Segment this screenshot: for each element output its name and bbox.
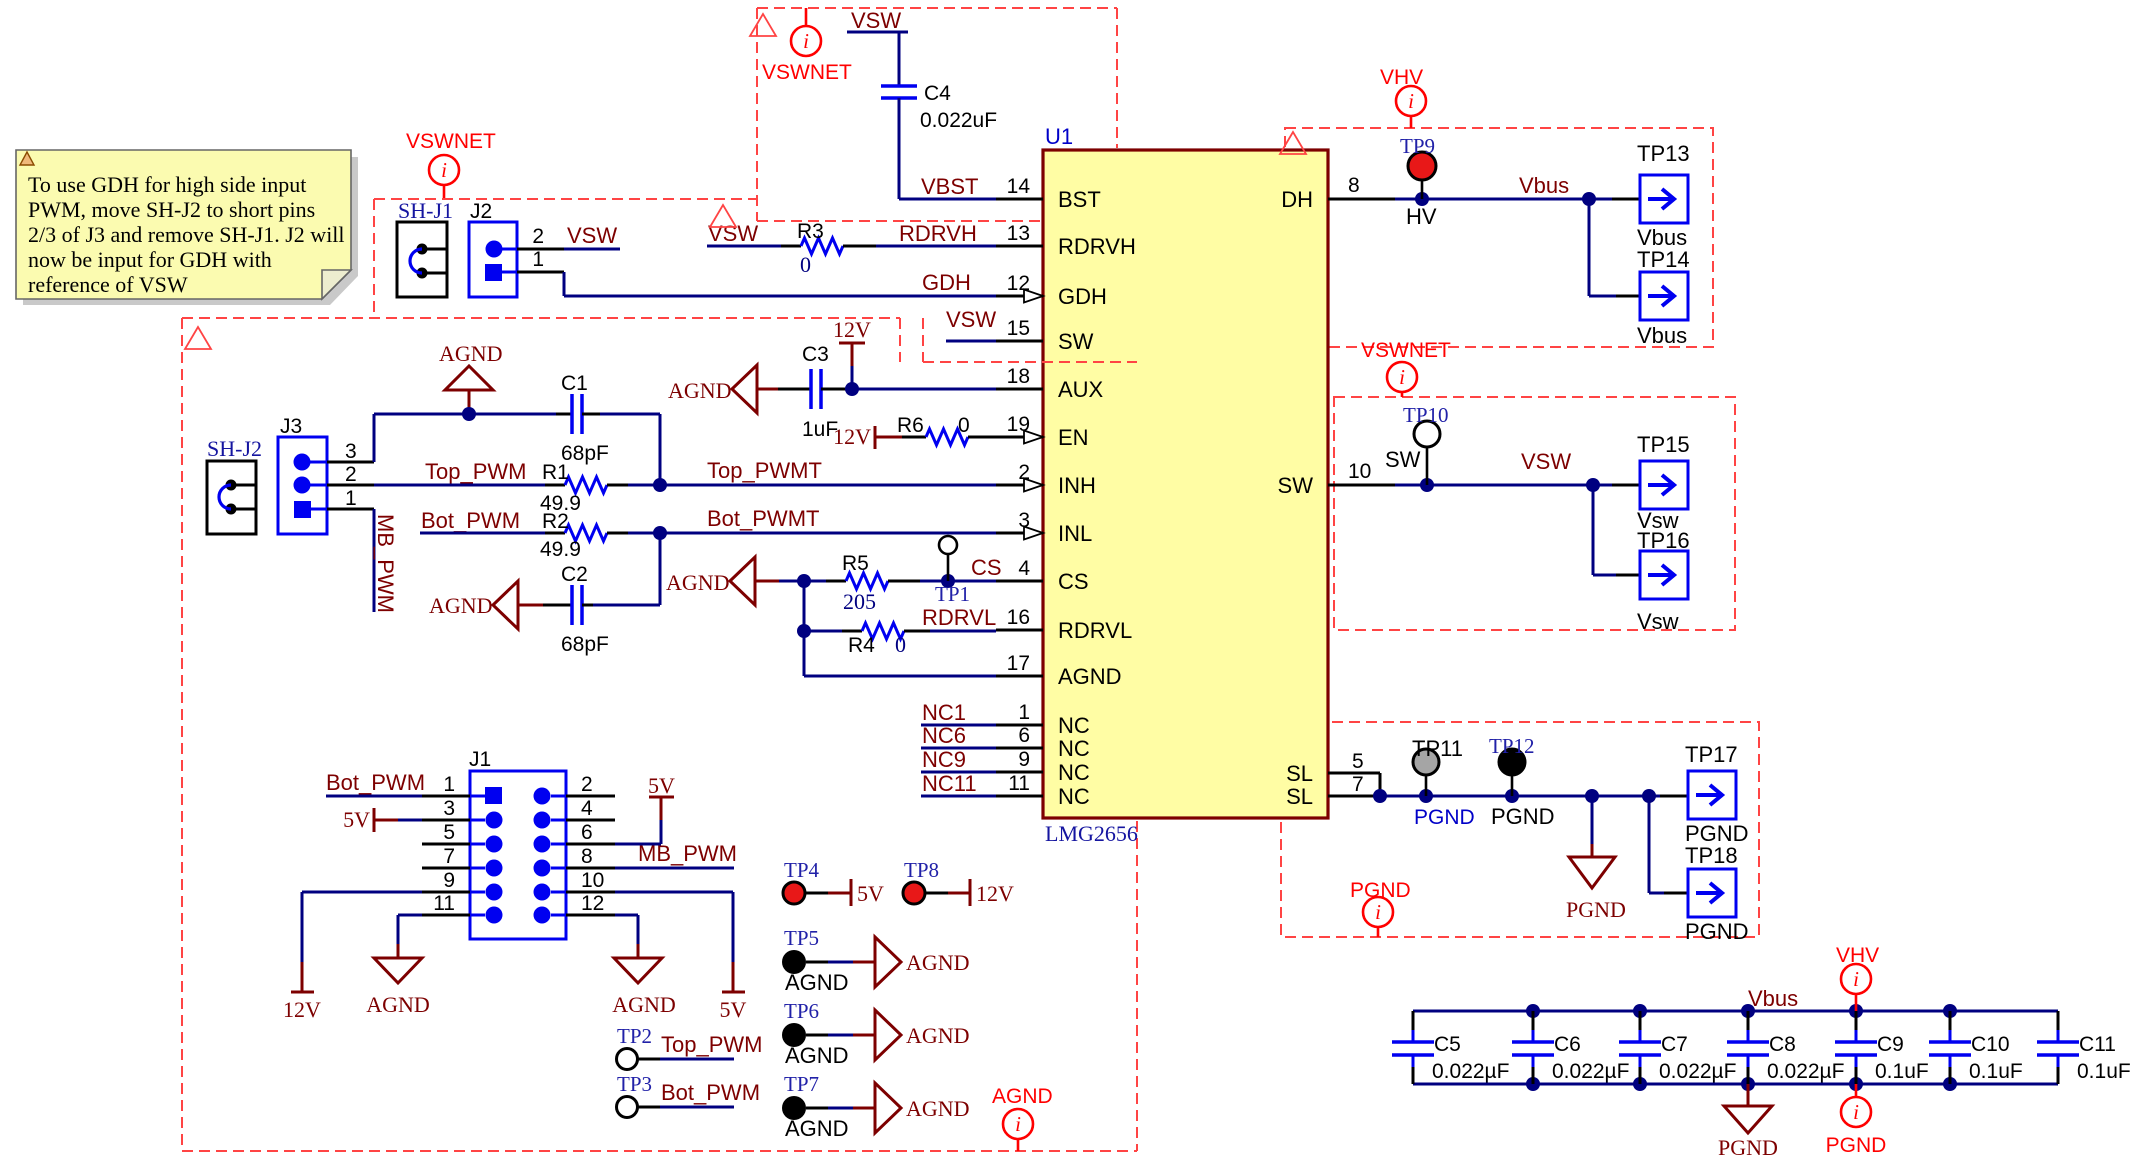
svg-text:R4: R4 xyxy=(848,634,875,657)
svg-text:J2: J2 xyxy=(470,200,492,223)
svg-text:J1: J1 xyxy=(469,748,491,771)
resistor R6 xyxy=(897,414,996,445)
svg-text:2/3 of J3 and remove SH-J1. J2: 2/3 of J3 and remove SH-J1. J2 will xyxy=(28,222,345,247)
svg-text:R6: R6 xyxy=(897,414,924,437)
test point TP11 xyxy=(1412,736,1475,829)
svg-text:C11: C11 xyxy=(2079,1033,2116,1056)
svg-text:0.022µF: 0.022µF xyxy=(1659,1060,1736,1083)
node VSW at R3 xyxy=(707,221,781,246)
wire J1 pin4 xyxy=(566,819,615,822)
svg-text:0: 0 xyxy=(958,414,970,437)
svg-text:VSW: VSW xyxy=(851,8,901,33)
svg-text:EN: EN xyxy=(1058,425,1089,450)
wire R2 to INL xyxy=(628,526,996,540)
svg-text:AGND: AGND xyxy=(906,1096,970,1121)
variant marker triangle big left box xyxy=(185,327,211,349)
variant region box top VSWNET xyxy=(757,8,1117,221)
svg-text:68pF: 68pF xyxy=(561,633,609,656)
variant region box Vbus TP9 TP13 TP14 xyxy=(1285,128,1713,347)
note yellow sticky xyxy=(16,150,358,305)
variant region edge over U1 xyxy=(923,361,1137,363)
test point TP1 xyxy=(935,536,970,606)
svg-text:4: 4 xyxy=(1018,557,1030,580)
svg-text:i: i xyxy=(1408,89,1414,113)
svg-text:i: i xyxy=(1853,1100,1859,1124)
svg-text:4: 4 xyxy=(581,797,593,820)
resistor R1 xyxy=(540,461,628,515)
svg-text:5V: 5V xyxy=(720,997,747,1022)
svg-text:Bot_PWM: Bot_PWM xyxy=(326,770,425,795)
port AGND at TP5 xyxy=(875,937,970,987)
net class VSWNET top xyxy=(762,8,852,84)
test point TP16 xyxy=(1637,528,1690,634)
svg-text:5V: 5V xyxy=(343,807,370,832)
svg-text:VSW: VSW xyxy=(567,223,617,248)
net class VSWNET right xyxy=(1361,339,1451,397)
capacitor C3 xyxy=(802,343,838,441)
resistor R5 xyxy=(826,552,920,614)
svg-text:16: 16 xyxy=(1007,606,1030,629)
svg-text:PGND: PGND xyxy=(1566,897,1626,922)
wire J1 pin12 to AGND xyxy=(566,915,638,944)
svg-text:Vbus: Vbus xyxy=(1748,986,1798,1011)
power 12V at J1 pin9 xyxy=(283,962,321,1022)
svg-text:R3: R3 xyxy=(797,220,824,243)
svg-text:BST: BST xyxy=(1058,187,1101,212)
node NC11 xyxy=(921,771,996,796)
svg-text:17: 17 xyxy=(1007,652,1030,675)
port AGND at TP7 xyxy=(875,1083,970,1133)
wire J1 pin11 to AGND xyxy=(398,915,470,944)
test point TP9 xyxy=(1400,134,1436,199)
wire R1 to INH xyxy=(628,478,996,492)
net class PGND at bank xyxy=(1826,1084,1887,1157)
svg-text:PWM, move SH-J2 to short pins: PWM, move SH-J2 to short pins xyxy=(28,197,315,222)
node VSW top xyxy=(847,8,908,33)
svg-text:VHV: VHV xyxy=(1380,66,1423,89)
svg-text:12V: 12V xyxy=(833,317,871,342)
svg-text:i: i xyxy=(1015,1112,1021,1136)
svg-text:2: 2 xyxy=(581,773,593,796)
wire J3 pin1 MB_PWM xyxy=(327,509,374,612)
svg-text:11: 11 xyxy=(1008,772,1030,795)
wire AGND port to R5 xyxy=(779,574,826,588)
wire to TP14 xyxy=(1589,199,1640,296)
wire gnd rail down to R4 xyxy=(797,581,842,638)
svg-text:i: i xyxy=(1399,365,1405,389)
svg-text:PGND: PGND xyxy=(1826,1134,1887,1157)
svg-text:15: 15 xyxy=(1007,317,1030,340)
svg-text:R2: R2 xyxy=(542,510,569,533)
svg-text:1: 1 xyxy=(532,248,544,271)
wire SW to VSW xyxy=(1395,478,1640,492)
svg-text:0.022uF: 0.022uF xyxy=(920,109,997,132)
net class VSWNET left xyxy=(406,130,496,198)
wire J1 pin10 to 5V xyxy=(566,892,733,962)
svg-text:SL: SL xyxy=(1286,761,1313,786)
U1 pin 11 NC xyxy=(996,772,1090,809)
svg-text:i: i xyxy=(803,29,809,53)
svg-text:AGND: AGND xyxy=(666,570,730,595)
jumper shunt SH-J1 xyxy=(397,198,453,297)
svg-text:TP13: TP13 xyxy=(1637,141,1690,166)
U1 pin 3 INL xyxy=(996,509,1092,546)
test point TP10 xyxy=(1403,403,1449,485)
wire J1 pin2 xyxy=(566,795,615,798)
wire DH to Vbus xyxy=(1395,192,1640,206)
svg-text:SW: SW xyxy=(1385,447,1421,472)
svg-text:12V: 12V xyxy=(283,997,321,1022)
port AGND at C3 xyxy=(668,365,778,413)
svg-text:CS: CS xyxy=(971,555,1002,580)
svg-text:INH: INH xyxy=(1058,473,1096,498)
svg-text:AUX: AUX xyxy=(1058,377,1104,402)
svg-text:INL: INL xyxy=(1058,521,1092,546)
wire VSW to C4 xyxy=(898,32,901,86)
svg-text:12V: 12V xyxy=(976,881,1014,906)
svg-text:Bot_PWM: Bot_PWM xyxy=(661,1080,760,1105)
svg-text:1: 1 xyxy=(1018,701,1030,724)
svg-text:Top_PWM: Top_PWM xyxy=(661,1032,762,1057)
U1 pin 6 NC xyxy=(996,724,1090,761)
wire C1 to INH rail xyxy=(600,414,660,485)
svg-text:AGND: AGND xyxy=(785,1043,849,1068)
variant region big left box AGND xyxy=(182,318,1137,1151)
wire C4 to BST xyxy=(899,98,996,199)
svg-text:5: 5 xyxy=(443,821,455,844)
svg-text:VSWNET: VSWNET xyxy=(406,130,496,153)
svg-text:AGND: AGND xyxy=(906,1023,970,1048)
test point TP12 xyxy=(1489,734,1555,829)
svg-text:VBST: VBST xyxy=(921,174,978,199)
svg-text:C10: C10 xyxy=(1971,1033,2010,1056)
svg-text:TP5: TP5 xyxy=(784,926,819,950)
svg-text:GDH: GDH xyxy=(922,270,971,295)
U1 pin 12 GDH xyxy=(996,272,1107,309)
U1 pin 4 CS xyxy=(996,557,1089,594)
U1 pin 14 BST xyxy=(996,175,1101,212)
wire Vbus top rail xyxy=(1413,1004,2058,1018)
svg-text:18: 18 xyxy=(1007,365,1030,388)
capacitor C7 xyxy=(1619,1011,1736,1084)
U1 pin 7 SL xyxy=(1286,773,1380,809)
svg-text:AGND: AGND xyxy=(429,593,493,618)
U1 pin 5 SL xyxy=(1286,750,1380,786)
svg-text:NC: NC xyxy=(1058,713,1090,738)
U1 pin 15 SW xyxy=(996,317,1094,354)
svg-text:Bot_PWM: Bot_PWM xyxy=(421,508,520,533)
wire AGND port to C3 xyxy=(778,388,811,391)
resistor R3 xyxy=(781,220,876,277)
svg-text:14: 14 xyxy=(1007,175,1031,198)
svg-text:0.1uF: 0.1uF xyxy=(1969,1060,2023,1083)
net class VHV top xyxy=(1380,66,1426,128)
svg-text:3: 3 xyxy=(345,440,357,463)
svg-text:TP7: TP7 xyxy=(784,1072,819,1096)
port AGND at R5 R4 xyxy=(666,557,779,605)
power 5V at J1 pin6 xyxy=(648,773,675,820)
ground AGND power symbol at C1 xyxy=(439,341,503,421)
svg-text:5V: 5V xyxy=(857,881,884,906)
svg-text:1: 1 xyxy=(345,487,357,510)
test point TP13 xyxy=(1637,141,1690,250)
svg-text:MB_PWM: MB_PWM xyxy=(638,841,737,866)
wire R5 to CS xyxy=(920,574,996,588)
svg-text:2: 2 xyxy=(345,463,357,486)
variant marker triangle Vbus box xyxy=(1280,132,1306,154)
wire J2 pin1 to GDH xyxy=(517,272,996,296)
svg-text:C5: C5 xyxy=(1434,1033,1461,1056)
svg-text:NC11: NC11 xyxy=(922,771,977,796)
wire Bot_PWM xyxy=(420,532,545,535)
U1 pin 18 AUX xyxy=(996,365,1104,402)
svg-text:6: 6 xyxy=(581,821,593,844)
svg-text:PGND: PGND xyxy=(1414,806,1475,829)
wire gnd rail to AGND pin xyxy=(804,631,996,676)
svg-text:TP12: TP12 xyxy=(1489,734,1535,758)
svg-text:i: i xyxy=(441,158,447,182)
svg-text:SW: SW xyxy=(1278,473,1314,498)
variant marker triangle top box xyxy=(750,14,776,36)
test point TP7 xyxy=(782,1072,875,1141)
svg-text:10: 10 xyxy=(1348,460,1371,483)
svg-text:VSWNET: VSWNET xyxy=(762,61,852,84)
capacitor C4 xyxy=(881,82,997,132)
net class AGND bottom xyxy=(992,1085,1053,1151)
svg-text:DH: DH xyxy=(1281,187,1313,212)
svg-text:C2: C2 xyxy=(561,563,588,586)
wire to TP18 xyxy=(1649,796,1688,893)
svg-text:TP9: TP9 xyxy=(1400,134,1435,158)
svg-text:TP1: TP1 xyxy=(935,582,970,606)
svg-text:C4: C4 xyxy=(924,82,951,105)
svg-text:SH-J1: SH-J1 xyxy=(398,198,453,223)
svg-text:Top_PWMT: Top_PWMT xyxy=(707,458,822,483)
svg-text:10: 10 xyxy=(581,869,604,892)
wire J1 pin5 xyxy=(422,843,470,846)
ground AGND at J1 pin11 xyxy=(366,944,430,1017)
svg-text:TP11: TP11 xyxy=(1412,736,1463,761)
connector J1 xyxy=(433,748,604,939)
svg-text:11: 11 xyxy=(433,892,455,915)
U1 pin 1 NC xyxy=(996,701,1090,738)
svg-text:49.9: 49.9 xyxy=(540,538,581,561)
ground PGND triangle at bank xyxy=(1718,1084,1778,1160)
svg-text:0.022µF: 0.022µF xyxy=(1552,1060,1629,1083)
svg-text:AGND: AGND xyxy=(1058,664,1122,689)
wire J1 pin8 MB_PWM xyxy=(566,841,737,868)
svg-text:C9: C9 xyxy=(1877,1033,1904,1056)
svg-text:NC9: NC9 xyxy=(922,747,966,772)
test point TP4 xyxy=(783,858,884,906)
svg-text:HV: HV xyxy=(1406,204,1437,229)
svg-text:R1: R1 xyxy=(542,461,569,484)
svg-text:Vbus: Vbus xyxy=(1637,323,1687,348)
ground PGND port triangle at SL xyxy=(1566,796,1626,922)
svg-text:C8: C8 xyxy=(1769,1033,1796,1056)
svg-text:AGND: AGND xyxy=(906,950,970,975)
svg-text:VSW: VSW xyxy=(946,307,996,332)
wire SL pins join xyxy=(1373,773,1688,803)
svg-text:TP4: TP4 xyxy=(784,858,820,882)
svg-text:5V: 5V xyxy=(648,773,675,798)
svg-text:AGND: AGND xyxy=(785,1116,849,1141)
svg-text:C1: C1 xyxy=(561,372,588,395)
svg-text:SL: SL xyxy=(1286,784,1313,809)
svg-text:RDRVL: RDRVL xyxy=(922,605,996,630)
svg-text:Bot_PWMT: Bot_PWMT xyxy=(707,506,819,531)
svg-text:Vsw: Vsw xyxy=(1637,609,1679,634)
svg-text:13: 13 xyxy=(1007,222,1030,245)
svg-text:Top_PWM: Top_PWM xyxy=(425,459,526,484)
capacitor C6 xyxy=(1512,1011,1629,1084)
svg-text:12: 12 xyxy=(581,892,604,915)
test point TP3 xyxy=(617,1072,761,1118)
jumper shunt SH-J2 xyxy=(207,436,262,534)
wire J1 pin6 to 5V xyxy=(566,820,661,844)
node VSW at SW pin xyxy=(946,307,996,341)
svg-text:U1: U1 xyxy=(1045,124,1073,149)
svg-text:NC: NC xyxy=(1058,760,1090,785)
port AGND at C2 xyxy=(429,581,543,629)
svg-text:i: i xyxy=(1375,900,1381,924)
wire J1 pin9 to 12V xyxy=(302,892,470,962)
svg-text:TP8: TP8 xyxy=(904,858,939,882)
wire to TP16 xyxy=(1593,485,1640,575)
net class VHV at bank xyxy=(1836,944,1879,1011)
svg-text:J3: J3 xyxy=(280,415,302,438)
op-amp U1 LMG2656 half-bridge driver xyxy=(1043,124,1328,846)
svg-text:VSW: VSW xyxy=(708,221,758,246)
svg-text:0: 0 xyxy=(895,632,906,657)
svg-text:AGND: AGND xyxy=(992,1085,1053,1108)
svg-text:NC6: NC6 xyxy=(922,723,966,748)
wire C3 to AUX xyxy=(821,382,996,396)
net class PGND in box xyxy=(1350,879,1411,937)
svg-text:7: 7 xyxy=(1352,773,1364,796)
wire J1 pin1 Bot_PWM xyxy=(326,770,470,796)
U1 pin 16 RDRVL xyxy=(996,606,1132,643)
svg-text:0.022µF: 0.022µF xyxy=(1767,1060,1844,1083)
svg-text:TP2: TP2 xyxy=(617,1024,652,1048)
svg-text:VSW: VSW xyxy=(1521,449,1571,474)
capacitor C8 xyxy=(1727,1011,1844,1084)
svg-text:NC1: NC1 xyxy=(922,700,966,725)
node NC6 xyxy=(921,723,996,748)
svg-text:3: 3 xyxy=(443,797,455,820)
svg-text:0.1uF: 0.1uF xyxy=(2077,1060,2131,1083)
test point TP18 xyxy=(1685,843,1749,944)
svg-text:5: 5 xyxy=(1352,750,1364,773)
wire R4 to RDRVL xyxy=(930,630,996,633)
svg-text:1: 1 xyxy=(443,773,455,796)
U1 pin 8 DH xyxy=(1281,174,1395,212)
test point TP15 xyxy=(1637,432,1690,533)
svg-text:TP3: TP3 xyxy=(617,1072,652,1096)
svg-text:Vbus: Vbus xyxy=(1519,173,1569,198)
capacitor C5 xyxy=(1392,1011,1509,1084)
svg-text:8: 8 xyxy=(581,845,593,868)
variant marker triangle near R3 xyxy=(710,205,736,227)
power 12V at C3 xyxy=(833,317,871,389)
U1 pin 17 AGND xyxy=(996,652,1122,689)
svg-text:AGND: AGND xyxy=(785,970,849,995)
svg-text:LMG2656: LMG2656 xyxy=(1045,821,1138,846)
capacitor C10 xyxy=(1929,1011,2023,1084)
svg-text:NC: NC xyxy=(1058,784,1090,809)
svg-text:PGND: PGND xyxy=(1718,1135,1778,1160)
svg-text:12V: 12V xyxy=(833,424,871,449)
svg-text:2: 2 xyxy=(532,225,544,248)
connector J2 xyxy=(469,200,544,297)
svg-text:AGND: AGND xyxy=(366,992,430,1017)
test point TP8 xyxy=(903,858,1014,906)
svg-text:SW: SW xyxy=(1058,329,1094,354)
U1 pin 9 NC xyxy=(996,748,1090,785)
svg-text:AGND: AGND xyxy=(612,992,676,1017)
variant region box VSW TP10 TP15 TP16 xyxy=(1334,397,1735,630)
svg-text:RDRVH: RDRVH xyxy=(1058,234,1136,259)
svg-text:SH-J2: SH-J2 xyxy=(207,436,262,461)
svg-text:CS: CS xyxy=(1058,569,1089,594)
svg-text:R5: R5 xyxy=(842,552,869,575)
node NC1 xyxy=(921,700,996,725)
svg-text:To use GDH for high side input: To use GDH for high side input xyxy=(28,172,306,197)
svg-text:0.022µF: 0.022µF xyxy=(1432,1060,1509,1083)
resistor R4 xyxy=(842,623,930,657)
wire J3 pin2 Top_PWM xyxy=(327,484,545,487)
test point TP2 xyxy=(617,1024,763,1070)
svg-text:TP16: TP16 xyxy=(1637,528,1690,553)
svg-text:TP6: TP6 xyxy=(784,999,819,1023)
svg-text:PGND: PGND xyxy=(1685,919,1749,944)
svg-text:TP14: TP14 xyxy=(1637,247,1690,272)
U1 pin 10 SW xyxy=(1278,460,1395,498)
svg-text:C7: C7 xyxy=(1661,1033,1688,1056)
svg-text:C3: C3 xyxy=(802,343,829,366)
ground AGND at J1 pin12 xyxy=(612,944,676,1017)
svg-text:7: 7 xyxy=(443,845,455,868)
svg-text:VSWNET: VSWNET xyxy=(1361,339,1451,362)
capacitor C11 xyxy=(2037,1011,2131,1084)
capacitor C1 xyxy=(556,372,609,465)
test point TP17 xyxy=(1685,742,1749,846)
test point TP6 xyxy=(782,999,875,1068)
svg-text:0.1uF: 0.1uF xyxy=(1875,1060,1929,1083)
svg-text:reference of VSW: reference of VSW xyxy=(28,272,188,297)
power 5V at J1 pin3 xyxy=(343,807,470,832)
svg-text:9: 9 xyxy=(1018,748,1030,771)
svg-text:TP17: TP17 xyxy=(1685,742,1738,767)
svg-text:RDRVH: RDRVH xyxy=(899,221,977,246)
power 5V at J1 pin10 xyxy=(720,962,747,1022)
svg-text:AGND: AGND xyxy=(668,378,732,403)
power 12V at R6 xyxy=(833,424,902,449)
svg-text:MB_PWM: MB_PWM xyxy=(373,514,398,613)
svg-text:now be input for GDH with: now be input for GDH with xyxy=(28,247,272,272)
resistor R2 xyxy=(540,510,628,561)
svg-text:RDRVL: RDRVL xyxy=(1058,618,1132,643)
svg-text:AGND: AGND xyxy=(439,341,503,366)
node NC9 xyxy=(921,747,996,772)
U1 pin 13 RDRVH xyxy=(996,222,1136,259)
U1 pin 19 EN xyxy=(996,413,1089,450)
test point TP14 xyxy=(1637,247,1690,348)
svg-text:205: 205 xyxy=(843,589,876,614)
variant region box PGND SL TP17 TP18 xyxy=(1281,722,1759,937)
svg-text:GDH: GDH xyxy=(1058,284,1107,309)
wire R3 to RDRVH xyxy=(876,245,996,248)
